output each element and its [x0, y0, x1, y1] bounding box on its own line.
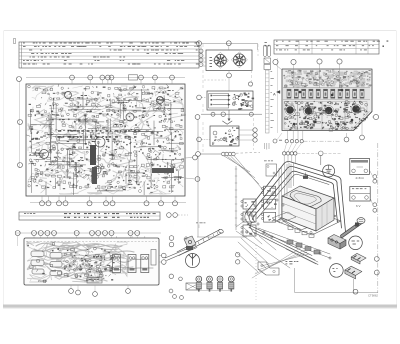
PCB board 1 outline: [26, 84, 185, 196]
PCB board 1 label text clusters: [31, 88, 179, 191]
signal arrows: [211, 95, 231, 106]
loudspeaker box outline: [206, 50, 252, 71]
connector part B: [345, 266, 362, 279]
PCB board 2 sparse parts: [27, 243, 61, 283]
speaker connection box: [350, 158, 370, 174]
tuner board chamfer whiteout: [355, 113, 374, 132]
PCB board 2 right callout balloons: [159, 236, 174, 265]
PCB board 2 component cluster: [63, 247, 114, 281]
control knob K1: [196, 276, 202, 292]
ruler bottom ticks: [265, 143, 269, 150]
PCB board 2 bottom connector: [87, 278, 102, 284]
antenna leader line: [197, 236, 247, 238]
funnel symbol: [223, 121, 233, 124]
antenna symbol balloon: [186, 254, 200, 268]
electrolytic C31: [92, 167, 97, 184]
adjustment gauge boxes: [264, 42, 271, 70]
antenna swivel mount: [184, 236, 196, 250]
tuning capacitor 1: [285, 105, 295, 115]
hinge bracket part: [258, 262, 279, 275]
loudspeaker LS1: [212, 52, 228, 68]
knob row link line: [199, 284, 232, 291]
page bottom edge shadow: [3, 305, 397, 308]
switch module S3: [261, 212, 275, 222]
node balloon e: [196, 152, 201, 157]
cabinet gasket loop inner: [254, 171, 338, 222]
PCB board 1 bottom callout balloons: [40, 196, 178, 206]
IF coil row: [283, 88, 370, 100]
connector plug P1: [31, 251, 44, 257]
ruler top capsules: [264, 45, 271, 57]
tuner corner balloon: [273, 133, 282, 143]
svg-text:PC844: PC844: [38, 279, 48, 283]
IC U3: [152, 168, 174, 173]
trimmer R13: [126, 113, 134, 121]
fuse holder F1: [151, 250, 156, 266]
page left edge: [3, 31, 5, 307]
connector callout balloon: [330, 264, 344, 278]
tuner sub-board dividers: [284, 101, 367, 130]
cabinet gasket loop middle: [250, 166, 342, 228]
signal flow line: [201, 110, 262, 121]
transformer mounting plate: [276, 208, 341, 235]
PCB board 2 outline: [24, 238, 159, 285]
preamp right leader lines: [239, 130, 253, 140]
PCB board 1 top callout balloons: [70, 75, 175, 84]
right rail balloons: [374, 257, 379, 275]
trimmer R11: [40, 150, 49, 159]
dashed link below speaker box: [204, 79, 226, 81]
chassis screws: [257, 199, 331, 259]
PCB board 1 bottom callout rail: [30, 202, 186, 204]
left speaker leader stubs: [203, 58, 206, 66]
connector plug P6: [50, 271, 62, 276]
svg-text:2×8 Ω: 2×8 Ω: [356, 176, 365, 180]
node balloon a: [195, 115, 200, 120]
top guide dashed line: [26, 241, 157, 243]
node balloon d: [249, 112, 253, 116]
switch module S6: [241, 225, 256, 236]
tone box left balloon: [197, 95, 207, 100]
antenna lower segment: [165, 245, 197, 261]
tuner board chamfer border: [354, 112, 373, 131]
trimmer R15: [65, 92, 72, 99]
telescopic antenna rod: [177, 229, 224, 256]
assembly callout balloons top: [283, 143, 342, 163]
trimmer R14: [157, 97, 164, 104]
node balloon c: [221, 112, 225, 116]
tuning capacitor 3: [324, 106, 334, 116]
relay RL1: [113, 255, 121, 273]
relay RL2: [128, 255, 136, 273]
battery box balloons: [370, 198, 376, 212]
page index dot: [383, 46, 384, 47]
PCB board 1 top callout rail: [26, 77, 185, 79]
trimmer R10: [95, 137, 105, 147]
PCB board 3 right callout balloon: [372, 114, 379, 119]
section border dash-dot: [377, 143, 379, 293]
switch module S4: [241, 199, 256, 209]
leader fan lines: [252, 247, 309, 278]
tone control box outline: [207, 91, 253, 110]
vertical gauge rule: [235, 166, 237, 230]
antenna mount screws: [169, 274, 183, 299]
dial scale strip text: [24, 213, 156, 218]
tone control inner box: [209, 94, 229, 109]
tuning capacitor 4: [351, 104, 361, 114]
PCB board 1 right callout balloons: [185, 155, 200, 181]
wires from connector row: [224, 156, 263, 190]
PCB board 1 left callout balloons: [17, 77, 23, 169]
parts table (top right): [274, 40, 379, 54]
bottom connection rail: [295, 268, 378, 294]
PCB board 1 component cluster left: [26, 84, 86, 189]
control knob K3: [217, 276, 223, 292]
PCB board 2 top callout balloons: [15, 231, 145, 257]
left assembly balloons: [236, 253, 240, 265]
PCB board 1 component cluster centre: [84, 86, 142, 193]
left margin mark: [14, 39, 16, 44]
PCB board 3 top callout balloons: [273, 59, 342, 88]
chassis base plate: [280, 205, 336, 230]
dial scale strip end balloons: [167, 213, 188, 218]
connector row under preamp: [201, 152, 261, 156]
assembly part number text: [286, 261, 299, 264]
preamp interior parts: [212, 127, 239, 145]
svg-text:CT9862: CT9862: [368, 294, 378, 298]
table callout balloons column: [199, 46, 203, 67]
loudspeaker box terminal marks: [210, 57, 213, 67]
PCB board 1 value text rows: [58, 130, 140, 137]
PCB board 1 component cluster right: [140, 84, 186, 193]
switch callout balloon: [349, 236, 363, 250]
connector plug P2: [31, 260, 44, 266]
parts table right text: [276, 41, 380, 51]
dotted divider line: [255, 245, 257, 302]
battery connection box: [350, 187, 370, 202]
vertical harness wire left: [197, 120, 199, 238]
electrolytic C30: [90, 145, 96, 165]
page right edge: [396, 31, 398, 307]
PCB board 1 extra wires: [30, 92, 184, 191]
chassis diagonal struts: [236, 219, 318, 272]
PCB board 1 top callout rect marker: [129, 75, 138, 80]
page corner tick: [387, 41, 389, 42]
control knob K4: [228, 276, 234, 292]
top leader rail: [197, 41, 258, 50]
transformer mounting tabs: [288, 226, 314, 237]
tone box right balloon: [248, 82, 252, 86]
parts list table row text: [23, 43, 200, 65]
svg-text:A: A: [273, 92, 276, 97]
mounting bracket small: [264, 161, 277, 177]
alignment scale bar: [266, 70, 274, 133]
speaker cutout in plate: [272, 212, 296, 223]
label leader small text: [196, 223, 205, 229]
connector plug P3: [32, 269, 44, 274]
node balloon b: [211, 112, 215, 116]
mains transformer T1: [282, 186, 334, 231]
PCB board 2 top callout rail: [16, 232, 161, 234]
PCB board 2 copper traces: [27, 242, 153, 282]
loudspeaker callout bottom: [227, 71, 232, 92]
PCB board 1 schematic wire grid: [29, 89, 184, 195]
earth terminal balloon: [321, 156, 335, 177]
connector part A: [351, 253, 366, 264]
connector plug P5: [50, 262, 62, 268]
loudspeaker LS2: [231, 52, 247, 68]
amplifier detail cluster: [232, 93, 254, 110]
antenna mount plate: [186, 283, 200, 290]
tuner board speckles: [284, 89, 368, 131]
trimmer R12: [93, 166, 101, 174]
control knob K2: [207, 276, 213, 292]
switch module S1: [261, 186, 275, 196]
capacitor on transformer: [303, 173, 308, 179]
mains plug lead: [342, 218, 365, 236]
preamp box outline: [210, 126, 239, 146]
A section marker: [273, 91, 280, 97]
cable clip row: [287, 240, 320, 254]
switch module S5: [241, 212, 256, 222]
mains switch block: [328, 235, 346, 250]
wire drops from balloons: [279, 163, 293, 228]
dial scale strip outline: [19, 212, 160, 220]
page top edge: [4, 30, 396, 32]
cabinet bottom edge lines: [245, 214, 330, 265]
PCB board 3 top texture: [283, 69, 371, 87]
cabinet right edge lines: [246, 210, 254, 220]
PCB board 2 bottom callout balloons: [69, 285, 131, 296]
svg-text:6 V: 6 V: [356, 204, 361, 208]
relay RL3: [141, 255, 149, 273]
parts list table (top left): [19, 42, 199, 68]
cabinet gasket loop innermost: [257, 174, 329, 218]
connector plug P4: [50, 253, 62, 259]
loudspeaker callout top: [226, 41, 231, 50]
guide line left of tuner board: [277, 58, 279, 133]
cabinet gasket loop outer: [246, 162, 346, 233]
switch module S2: [261, 199, 276, 209]
section divider dashes: [203, 44, 258, 152]
tuning capacitor 2: [304, 106, 314, 116]
speaker box balloons: [369, 170, 376, 183]
PCB board 3 bottom callout balloons: [285, 121, 364, 143]
PCB board 1 copper traces: [28, 86, 183, 194]
preamp right balloons: [253, 128, 257, 142]
PCB board 3 outline: [282, 69, 372, 131]
preamp left balloon: [197, 137, 210, 142]
